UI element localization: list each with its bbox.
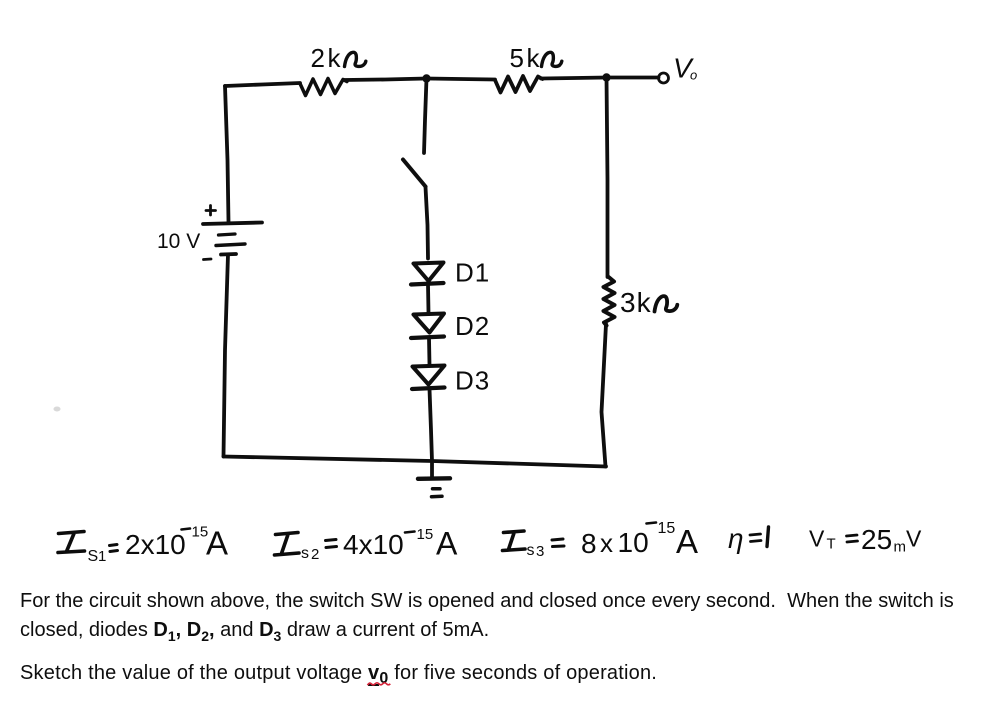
svg-text:A: A — [206, 525, 228, 562]
resistor R2 5kΩ zigzag — [495, 76, 543, 93]
label 3kΩ — [620, 287, 652, 318]
diode D3 cathode bar — [412, 388, 445, 390]
equation VT = 25mV — [809, 524, 922, 556]
svg-text:D1: D1 — [455, 258, 490, 288]
equation Is3 = 8x10^-15 A — [503, 520, 699, 560]
svg-text:s: s — [301, 545, 309, 562]
svg-text:A: A — [436, 526, 458, 562]
label Vo — [673, 53, 697, 84]
wire bottom — [224, 457, 607, 467]
battery V1 bottom plate — [221, 252, 236, 256]
ground bar mid — [433, 487, 441, 491]
wire top-left horizontal — [225, 83, 300, 86]
label 2kΩ — [311, 43, 342, 73]
wire R3 to bottom — [602, 324, 607, 467]
diode D1 triangle — [414, 263, 444, 282]
svg-text:8: 8 — [581, 528, 597, 559]
omega glyph for 3kΩ — [655, 296, 678, 311]
svg-text:D3: D3 — [455, 366, 490, 396]
diode D2 cathode bar — [411, 337, 444, 339]
wire left vertical upper — [225, 86, 229, 222]
plus sign — [206, 206, 216, 216]
wire R1 to node A — [344, 79, 426, 81]
svg-text:s: s — [527, 542, 535, 559]
node A junction dot — [422, 74, 430, 82]
svg-text:3: 3 — [536, 543, 544, 560]
svg-text:k: k — [527, 43, 541, 73]
wire node A down to switch — [424, 79, 427, 154]
label D2 — [455, 311, 490, 341]
battery V1 top plate — [203, 223, 262, 225]
battery V1 mid long plate — [216, 244, 245, 246]
label D3 — [455, 366, 490, 396]
svg-text:V: V — [809, 526, 825, 552]
equation Is1 = 2x10^-15 A — [58, 524, 228, 566]
svg-text:S: S — [88, 548, 99, 565]
minus sign — [204, 258, 212, 261]
output terminal circle Vo — [659, 73, 669, 83]
wire R2 to node B — [541, 78, 607, 79]
svg-text:5: 5 — [510, 43, 524, 73]
node B junction dot — [602, 73, 610, 81]
equation eta = 1 — [728, 523, 769, 554]
omega glyph for 2kΩ — [345, 52, 366, 66]
svg-text:15: 15 — [658, 520, 676, 537]
diode D3 triangle — [413, 366, 445, 385]
svg-text:10: 10 — [618, 527, 649, 558]
svg-text:η: η — [728, 523, 744, 554]
svg-text:10 V: 10 V — [157, 230, 200, 253]
resistor R3 3kΩ vertical zigzag — [604, 277, 615, 326]
wire node B to output terminal — [609, 76, 659, 80]
ground bar short — [432, 495, 443, 499]
omega glyph for 5kΩ — [542, 52, 562, 66]
paragraph line 2 — [20, 619, 489, 644]
svg-text:x: x — [600, 528, 613, 558]
svg-text:2: 2 — [311, 43, 325, 73]
label 10 V — [157, 230, 200, 253]
battery V1 mid short plate — [219, 234, 236, 235]
svg-text:3k: 3k — [620, 287, 652, 318]
svg-text:1: 1 — [98, 548, 106, 565]
svg-text:o: o — [690, 68, 697, 83]
svg-text:D2: D2 — [455, 311, 490, 341]
svg-text:V: V — [906, 526, 922, 552]
wire node A to R2 — [427, 79, 496, 80]
label D1 — [455, 258, 490, 288]
equation Is2 = 4x10^-15 A — [275, 526, 459, 564]
svg-text:15: 15 — [417, 526, 434, 543]
wire switch to D1 — [426, 187, 429, 259]
wire node B down to R3 — [607, 78, 608, 278]
svg-text:25: 25 — [861, 524, 892, 555]
wire D3 to ground — [430, 389, 433, 478]
svg-text:k: k — [328, 43, 342, 73]
svg-text:2x10: 2x10 — [125, 529, 186, 560]
svg-text:2: 2 — [311, 546, 319, 563]
diode D2 triangle — [414, 314, 445, 333]
resistor R1 2kΩ zigzag — [300, 79, 347, 96]
wire left vertical lower — [224, 255, 229, 457]
svg-text:A: A — [676, 523, 698, 560]
svg-text:T: T — [827, 536, 836, 553]
svg-text:m: m — [894, 539, 907, 556]
diode D1 cathode bar — [411, 283, 444, 285]
paragraph line 3 — [20, 662, 657, 685]
paragraph line 1 — [20, 590, 954, 613]
switch SW blade — [403, 160, 426, 187]
ground bar long — [418, 476, 450, 481]
wire D2 to D3 — [427, 338, 431, 365]
svg-text:4x10: 4x10 — [343, 529, 404, 560]
faint pencil smudge — [54, 407, 61, 412]
label 5kΩ — [510, 43, 541, 73]
wire D1 to D2 — [426, 285, 430, 314]
